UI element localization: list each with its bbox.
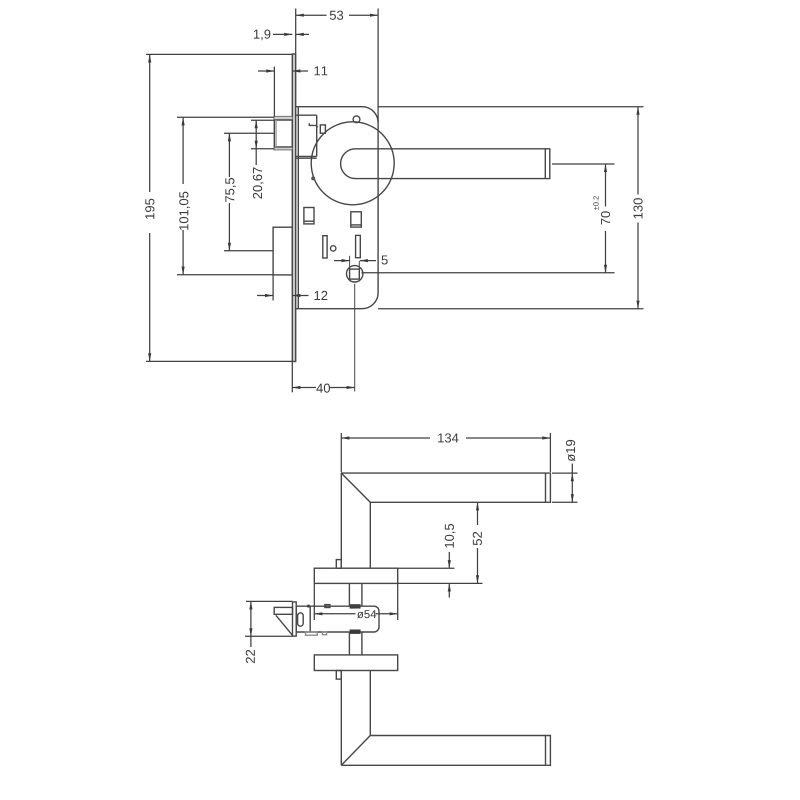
- cylinder bottom tabs: [306, 632, 318, 635]
- dimension ø54: [314, 584, 397, 620]
- cylinder top tick: [307, 605, 309, 608]
- handle rose circle: [311, 122, 394, 205]
- label 5: [382, 255, 388, 264]
- key cylinder square: [350, 269, 360, 279]
- dimension ø19: [552, 464, 578, 503]
- upper rose plate: [314, 568, 397, 583]
- dimension 195: [146, 54, 292, 361]
- dimension 5: [334, 260, 376, 262]
- label 11: [314, 66, 327, 75]
- label 12: [314, 291, 327, 300]
- keyhole edge extensions: [349, 256, 351, 269]
- label 10,5: [445, 524, 456, 548]
- label 22: [246, 650, 255, 663]
- label 130: [633, 198, 642, 218]
- latch bolt: [274, 117, 292, 150]
- latch guide box: [296, 115, 317, 158]
- cylinder cam rect: [274, 607, 292, 614]
- label 52: [473, 532, 482, 545]
- lower lever end inner line: [545, 736, 547, 766]
- upper clip tab: [336, 560, 341, 569]
- upper spindle: [348, 583, 350, 606]
- label +-0.2: [593, 196, 598, 210]
- small stop rect: [320, 125, 325, 133]
- lower rose plate: [314, 655, 397, 671]
- dimension 75,5: [224, 133, 274, 251]
- centerline below cylinder: [354, 284, 356, 392]
- dimension 70: [362, 164, 615, 273]
- label dia19: [566, 440, 575, 462]
- upper lever (side): [341, 473, 550, 502]
- dimension 1,9: [273, 33, 309, 35]
- lower spindle boss: [350, 630, 361, 634]
- label 53: [330, 11, 343, 20]
- upper spindle boss: [350, 604, 361, 608]
- rose mark lower-left: [311, 176, 315, 180]
- lever handle bar: [341, 149, 550, 179]
- label 40: [316, 384, 330, 393]
- upper neck: [340, 473, 342, 568]
- label 1,9: [254, 30, 270, 41]
- cam support diagonal: [276, 615, 293, 635]
- dimension 20,67: [251, 120, 274, 165]
- key cylinder circle: [347, 266, 363, 282]
- cylinder division line: [309, 606, 311, 632]
- dimension 130: [378, 107, 643, 309]
- deadbolt: [273, 227, 292, 275]
- left slot: [323, 236, 327, 258]
- lower spindle: [348, 632, 350, 655]
- dimension 101,05: [177, 117, 274, 274]
- upper lever end inner line: [545, 473, 547, 502]
- dimension 12: [257, 275, 309, 301]
- dimension 52: [398, 502, 483, 583]
- dimension 22: [245, 601, 293, 647]
- label 101,05: [179, 192, 190, 230]
- label 70: [601, 211, 610, 224]
- lever end inner line: [544, 149, 546, 179]
- cylinder top notch: [325, 605, 330, 608]
- cylinder flange: [293, 602, 297, 636]
- dimension 134: [341, 433, 550, 472]
- latch spring hook: [309, 123, 317, 127]
- cylinder plug capsule: [298, 613, 304, 626]
- lower neck: [340, 671, 342, 766]
- dimension 53: [296, 9, 378, 123]
- faceplate: [292, 54, 295, 362]
- right slot: [356, 235, 361, 257]
- cylinder body: [296, 606, 379, 632]
- label 20,67: [253, 167, 264, 198]
- rose screw hole top: [353, 116, 360, 123]
- follower square: [351, 212, 362, 227]
- lock case body: [296, 107, 378, 309]
- dimension 40: [292, 362, 354, 393]
- dimension 11: [258, 67, 308, 117]
- lower clip tab: [336, 671, 341, 680]
- label dia54: [357, 610, 376, 618]
- label 75,5: [225, 178, 236, 202]
- lock case inner left edge: [297, 107, 299, 309]
- lower lever (side): [341, 736, 550, 766]
- small hole: [331, 246, 336, 251]
- guide rect left: [304, 208, 314, 224]
- label 195: [145, 199, 154, 219]
- dimension 10,5: [398, 552, 455, 598]
- label 134: [438, 433, 458, 442]
